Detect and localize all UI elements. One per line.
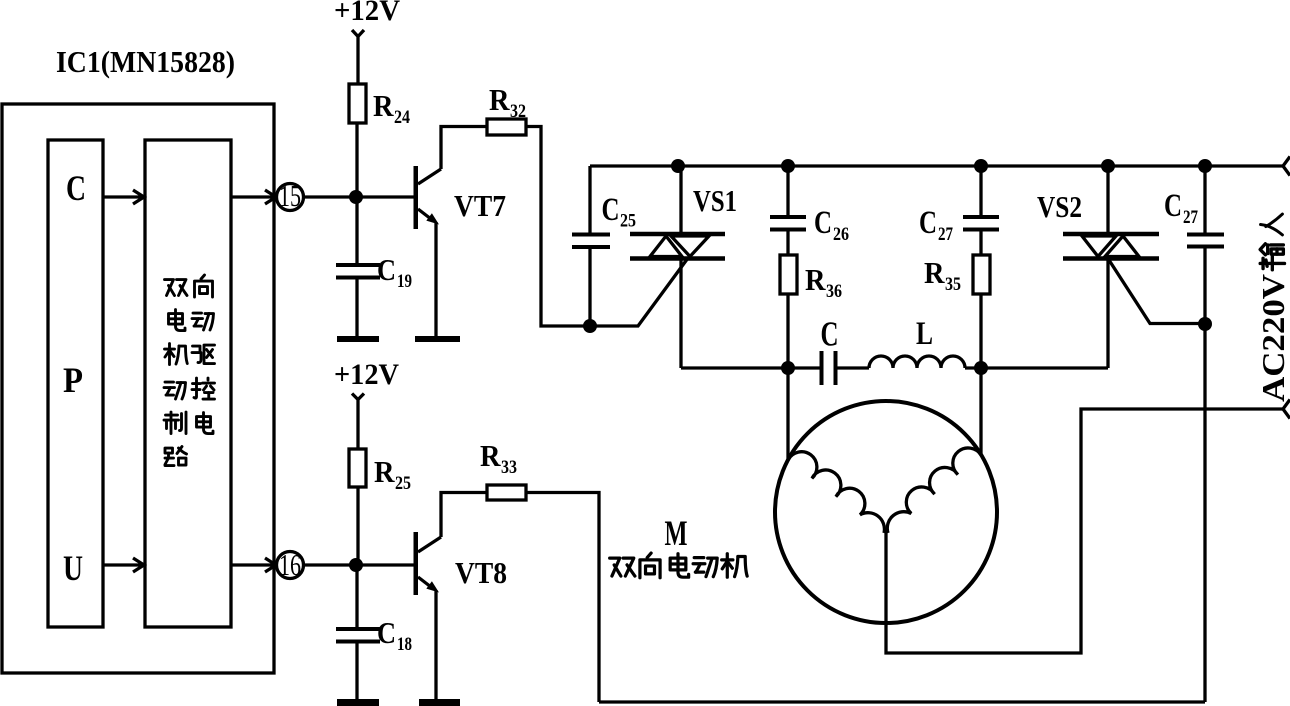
svg-text:33: 33 <box>501 457 517 478</box>
wire arrow block to pin 16 <box>231 558 276 572</box>
wire R32 to VS1 gate node <box>526 127 590 327</box>
wire R33 to bottom rail <box>526 493 599 703</box>
+12V supply arrow bottom <box>352 394 364 450</box>
resistor R35 <box>973 255 990 294</box>
svg-text:R: R <box>374 454 395 489</box>
pin 16 circle <box>277 552 304 579</box>
wire arrow block to pin 15 <box>231 190 276 204</box>
wire pin15 to VT7 base <box>303 195 415 198</box>
capacitor C19 <box>336 265 380 278</box>
node dot left motor terminal <box>781 361 795 375</box>
wire arrow C to block <box>103 190 144 204</box>
node dot VS1 gate <box>583 319 597 333</box>
ground C18 <box>337 699 379 706</box>
motor circle M <box>775 401 997 623</box>
AC220V输入 label <box>1255 214 1290 402</box>
svg-text:U: U <box>63 548 83 588</box>
svg-text:+12V: +12V <box>334 358 399 391</box>
svg-text:L: L <box>916 316 933 352</box>
IC1 drive-control block <box>145 140 231 627</box>
wire arrow U to block <box>103 558 144 572</box>
svg-text:15: 15 <box>279 178 301 213</box>
node dots on top rail <box>671 159 685 173</box>
node dot VS2 gate <box>1198 317 1212 331</box>
motor lead right <box>979 368 982 455</box>
motor label 双向电动机 <box>610 553 747 578</box>
svg-text:35: 35 <box>945 274 961 295</box>
capacitor C27 (left) <box>979 166 982 217</box>
svg-text:25: 25 <box>620 211 636 232</box>
node dot at VT7 base <box>349 190 363 204</box>
svg-text:26: 26 <box>833 224 849 245</box>
phase line between triac anodes <box>681 366 821 369</box>
motor winding left <box>788 452 884 533</box>
VS1 gate wire <box>590 258 688 326</box>
svg-text:P: P <box>63 360 83 400</box>
svg-text:AC220V: AC220V <box>1255 274 1290 402</box>
svg-text:C: C <box>377 252 396 287</box>
resistor R32 <box>487 119 526 135</box>
ground VT8 <box>419 699 460 706</box>
svg-text:19: 19 <box>397 271 412 292</box>
VT7 collector wire <box>441 127 487 170</box>
node dot at VT8 base <box>349 558 363 572</box>
svg-text:32: 32 <box>510 101 526 122</box>
capacitor C18 <box>336 629 380 642</box>
resistor R24 <box>349 84 366 123</box>
inductor L <box>869 356 965 368</box>
transistor VT7 <box>414 166 442 229</box>
transistor VT8 <box>414 532 442 595</box>
VS2 gate wire <box>1108 259 1205 324</box>
wire VS2-gate node down to bottom rail <box>1203 324 1206 702</box>
svg-text:C: C <box>919 205 937 241</box>
svg-text:C: C <box>1164 188 1182 224</box>
svg-text:24: 24 <box>394 107 410 128</box>
motor centre tap wire <box>886 409 1283 653</box>
VT7 emitter wire <box>434 222 437 336</box>
triac VS2 <box>1063 166 1159 368</box>
ground C19 <box>337 336 379 342</box>
svg-text:R: R <box>805 262 826 297</box>
svg-text:C: C <box>377 615 396 650</box>
svg-text:VS1: VS1 <box>693 183 737 218</box>
svg-text:27: 27 <box>1183 207 1198 228</box>
wire pin16 to VT8 base <box>303 563 415 566</box>
svg-text:27: 27 <box>938 224 953 245</box>
svg-text:VT7: VT7 <box>454 188 506 223</box>
wire R35 down <box>979 294 982 368</box>
svg-text:25: 25 <box>395 473 411 494</box>
block text 双向电动机驱动控制电路 <box>164 275 215 466</box>
wire C18 to ground <box>355 644 358 701</box>
svg-text:R: R <box>480 438 501 473</box>
AC terminal top <box>1283 157 1290 176</box>
svg-text:36: 36 <box>826 281 842 302</box>
svg-text:18: 18 <box>397 634 412 655</box>
wire node to C18 <box>355 565 358 629</box>
motor winding right <box>887 448 981 533</box>
node dot right motor terminal <box>974 361 988 375</box>
wire C19 to ground <box>355 280 358 337</box>
bottom rail <box>599 700 1205 703</box>
pin 15 circle <box>277 184 304 211</box>
+12V supply arrow top <box>352 30 364 84</box>
resistor R36 <box>780 255 797 294</box>
capacitor C27 (right) <box>1203 166 1206 234</box>
svg-text:IC1(MN15828): IC1(MN15828) <box>56 44 235 79</box>
wire R25 to node <box>356 487 359 565</box>
svg-text:VT8: VT8 <box>455 555 507 590</box>
svg-text:M: M <box>665 513 688 553</box>
capacitor C26 <box>786 166 789 217</box>
capacitor C25 <box>588 166 591 234</box>
IC1 outer box <box>2 104 274 673</box>
svg-text:C: C <box>66 168 86 208</box>
resistor R25 <box>349 449 366 487</box>
wire R24 to node <box>355 123 358 197</box>
svg-text:C: C <box>602 192 620 228</box>
svg-text:16: 16 <box>279 547 301 582</box>
VT8 collector wire <box>441 493 487 538</box>
svg-text:R: R <box>489 82 510 117</box>
IC1 inner register box <box>48 140 103 627</box>
svg-text:C: C <box>814 205 832 241</box>
svg-text:C: C <box>821 315 839 354</box>
wire node to C19 <box>355 197 358 265</box>
top rail <box>590 164 1283 167</box>
svg-text:+12V: +12V <box>334 0 400 27</box>
triac VS1 <box>630 166 725 368</box>
svg-text:VS2: VS2 <box>1037 189 1082 224</box>
wire R36 down <box>786 294 789 368</box>
VT8 emitter wire <box>434 590 437 699</box>
svg-text:R: R <box>373 88 394 123</box>
svg-text:R: R <box>924 255 945 290</box>
ground VT7 <box>415 336 460 342</box>
resistor R33 <box>487 485 526 500</box>
AC terminal bottom <box>1283 400 1290 419</box>
capacitor C (series) <box>822 351 836 385</box>
motor lead left <box>786 368 789 460</box>
